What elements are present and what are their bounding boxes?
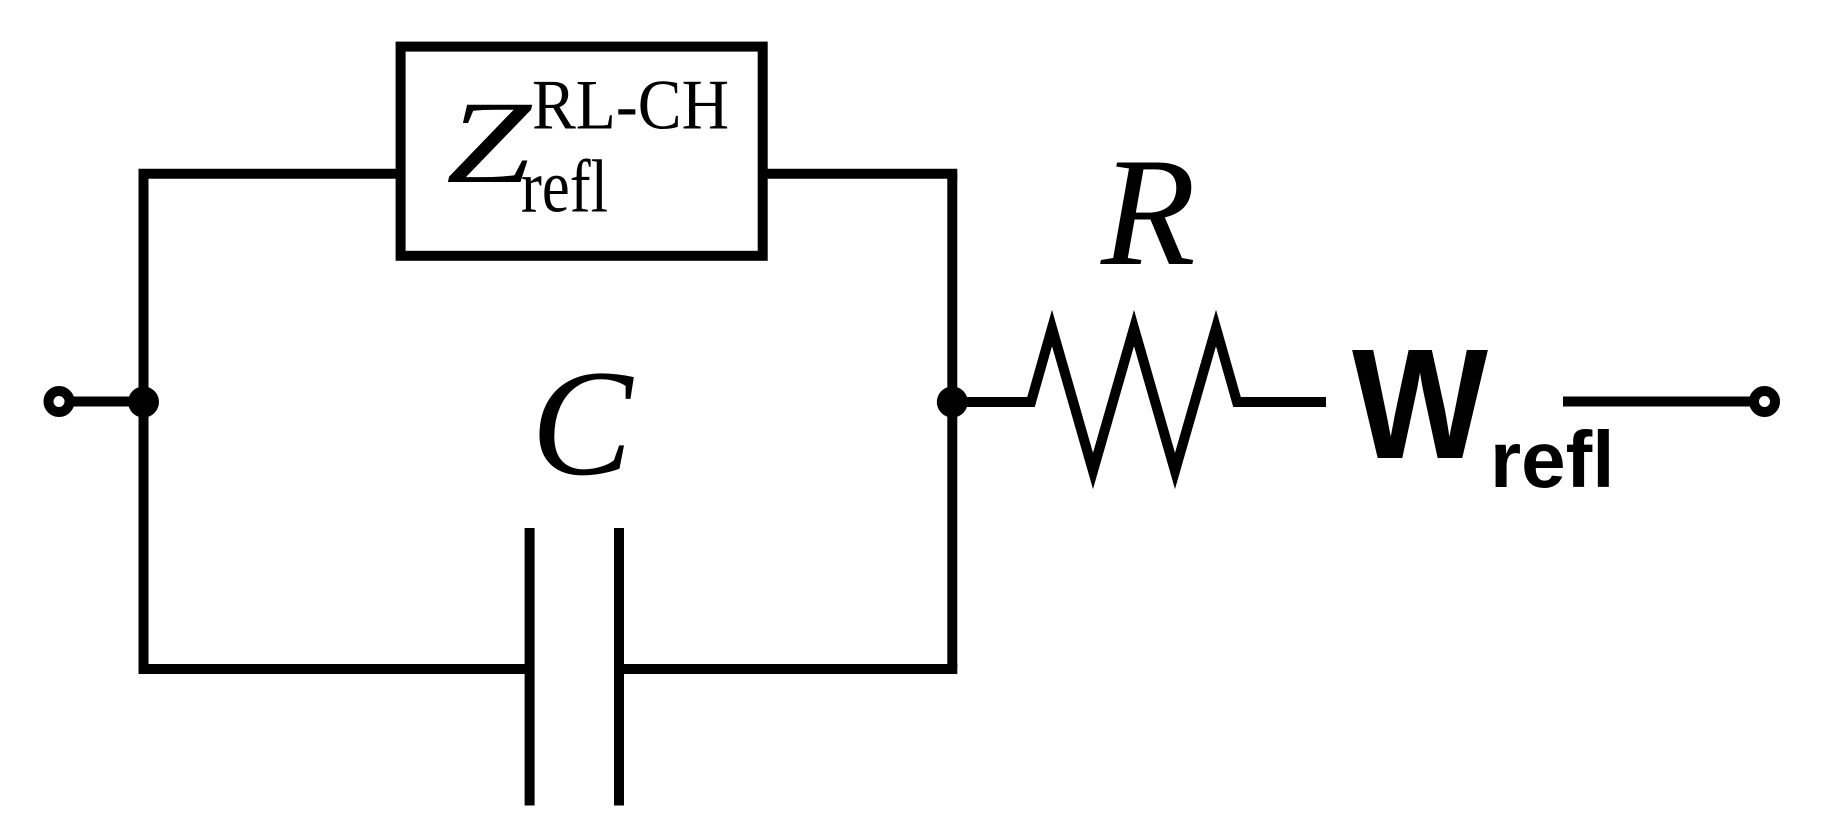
svg-text:W: W: [1352, 317, 1489, 492]
node N1 (junction dot): [128, 387, 159, 418]
wire: left vertical branch: [139, 174, 149, 669]
capacitor C left plate: [525, 528, 535, 806]
svg-text:R: R: [1100, 126, 1196, 298]
capacitor C right plate: [614, 528, 624, 806]
terminal T1 (left, open circle): [49, 391, 70, 412]
impedance box U1: [401, 47, 763, 256]
wire: bottom horizontal (left of capacitor): [139, 664, 530, 674]
svg-text:RL-CH: RL-CH: [532, 67, 729, 145]
wire: top-right horizontal from impedance box: [763, 169, 957, 179]
wire: Warburg to right terminal: [1563, 397, 1754, 407]
wire: top-left horizontal to impedance box: [139, 169, 401, 179]
wire: bottom horizontal (right of capacitor): [619, 664, 957, 674]
terminal T2 (right, open circle): [1754, 391, 1775, 412]
wire: left terminal to node N1: [69, 397, 148, 407]
resistor R (zigzag): [952, 328, 1326, 471]
svg-text:refl: refl: [1490, 415, 1615, 504]
svg-text:C: C: [531, 339, 634, 507]
svg-text:Z: Z: [446, 77, 533, 208]
node N2 (junction dot): [937, 387, 968, 418]
svg-text:refl: refl: [521, 146, 608, 229]
wire: right vertical branch: [947, 174, 957, 669]
